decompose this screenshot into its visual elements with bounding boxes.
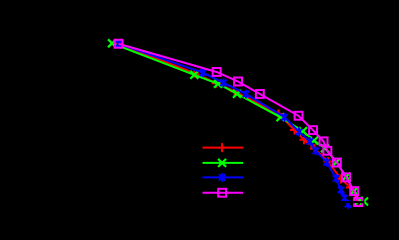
series 4 magenta square marker 12 [354,198,362,206]
series 4 magenta square marker 9 [333,159,341,167]
legend entry 1 red plus marker [218,143,227,152]
series 2 green cross marker 11 [350,187,358,195]
series 1 red plus marker 12 [353,196,362,205]
series 1 red plus marker 11 [346,183,355,192]
series 1 red plus marker 7 [300,135,309,144]
series 4 magenta square marker 10 [342,173,350,181]
legend entry 3 blue asterisk marker [219,173,225,182]
series 4 magenta square marker 3 [234,78,242,86]
series 1 red line [117,43,357,200]
series 2 green cross marker 2 [190,71,198,79]
legend entry 1 red sample line [203,147,244,149]
series 4 magenta line [119,44,359,202]
series 1 red plus marker 1 [113,39,122,48]
series 2 green cross marker 3 [214,80,222,88]
series 1 red plus marker 9 [324,157,333,166]
series 2 green cross marker 4 [233,90,241,98]
series 3 blue asterisk marker 9 [324,158,330,167]
series 2 green cross marker 10 [342,173,350,181]
series 3 blue asterisk marker 12 [341,194,347,203]
series 2 green cross marker 12 [355,197,363,205]
series 3 blue asterisk marker 5 [281,113,287,122]
series 4 magenta square marker 6 [309,126,317,134]
series 2 green cross marker 5 [277,113,285,121]
bottom axis border segment [300,201,364,203]
series 2 green cross marker 1 [108,39,116,47]
series 1 red plus marker 2 [190,69,199,78]
series 2 green line [112,43,364,201]
series 1 red plus marker 8 [310,144,319,153]
series 4 magenta square marker 5 [295,112,303,120]
series 4 magenta square marker 7 [320,137,328,145]
series 3 blue line [119,44,348,205]
legend entry 3 blue sample line [203,176,244,178]
series 1 red plus marker 10 [337,175,346,184]
series 2 green cross marker 7 [310,137,318,145]
series 4 magenta square marker 1 [115,40,123,48]
series 4 magenta square marker 2 [213,68,221,76]
legend entry 2 green sample line [203,162,244,164]
right axis border segment [363,196,365,209]
series 1 red plus marker 6 [290,126,299,135]
series 1 red plus marker 4 [230,87,239,96]
series 2 green cross marker 6 [299,127,307,135]
series 3 blue asterisk marker 4 [243,90,249,99]
series 2 green cross marker 13 [360,198,368,206]
series 3 blue asterisk marker 7 [307,137,313,146]
series 3 blue asterisk marker 13 [345,200,351,209]
series 3 blue asterisk marker 1 [115,39,121,48]
series 3 blue asterisk marker 3 [220,78,226,87]
series 4 magenta square marker 11 [350,187,358,195]
series 4 magenta square marker 4 [256,90,264,98]
series 3 blue asterisk marker 10 [333,174,339,183]
legend entry 4 magenta square marker [218,189,226,197]
series 1 red plus marker 5 [274,109,283,118]
series 4 magenta square marker 8 [323,147,331,155]
series 2 green cross marker 9 [332,158,340,166]
series 2 green cross marker 8 [321,144,329,152]
series 1 red plus marker 3 [212,79,221,88]
legend entry 4 magenta sample line [203,192,244,194]
series 3 blue asterisk marker 2 [200,68,206,77]
series 3 blue asterisk marker 8 [313,147,319,156]
legend entry 2 green cross marker [218,159,226,167]
series 3 blue asterisk marker 11 [338,185,344,194]
series 3 blue asterisk marker 6 [296,127,302,136]
